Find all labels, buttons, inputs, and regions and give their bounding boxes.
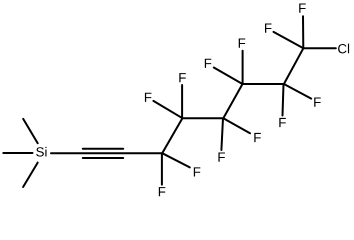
atom label F on C4 down-right	[254, 133, 261, 142]
wire bond C6-F down-right	[162, 153, 190, 167]
wire bond C5-F up-left	[153, 101, 182, 118]
wire bond C5-F up	[181, 85, 183, 118]
wire bond C5-C4	[182, 117, 223, 119]
wire bond C2-C1	[284, 48, 304, 84]
atom label Si	[36, 147, 46, 157]
atom label F on C5 up-left	[145, 93, 152, 102]
wire methyl bond down-left of Si	[23, 163, 38, 187]
atom label F on C3 up	[239, 39, 246, 48]
wire bond C1-F up-left	[274, 32, 304, 48]
atom label Cl	[338, 44, 349, 54]
atom label F on C2 down	[279, 118, 286, 127]
wire bond C4-F down	[221, 118, 223, 150]
wire bond C2-F down-right	[284, 84, 311, 99]
wire bond C3-C2	[243, 83, 284, 85]
atom label F on C6 down	[159, 187, 166, 196]
atom label F on C4 down	[218, 153, 225, 162]
wire bond C2-F down	[283, 84, 284, 116]
wire bond C3-F up-left	[214, 68, 243, 85]
atom label F on C6 down-right	[194, 167, 201, 176]
wire bond C6-C5	[162, 118, 182, 153]
wire methyl bond up-left of Si	[23, 119, 38, 143]
wire bond C4-C3	[223, 84, 242, 118]
wire bond C1-Cl	[303, 47, 335, 49]
atom label F on C2 down-right	[314, 98, 321, 107]
wire bond C1-F up	[302, 16, 304, 48]
wire bond C4-F down-right	[223, 118, 250, 133]
wire Si to alkyne main line	[51, 152, 162, 154]
wire triple bond upper line	[83, 148, 123, 150]
wire bond C6-F down	[161, 153, 163, 184]
wire triple bond lower line	[83, 157, 123, 159]
wire methyl bond left of Si	[3, 152, 32, 154]
atom label F on C3 up-left	[205, 59, 212, 68]
wire bond C3-F up	[242, 51, 244, 84]
atom label F on C5 up	[179, 73, 186, 82]
atom label F on C1 up	[299, 4, 306, 13]
atom label F on C1 up-left	[265, 24, 272, 33]
